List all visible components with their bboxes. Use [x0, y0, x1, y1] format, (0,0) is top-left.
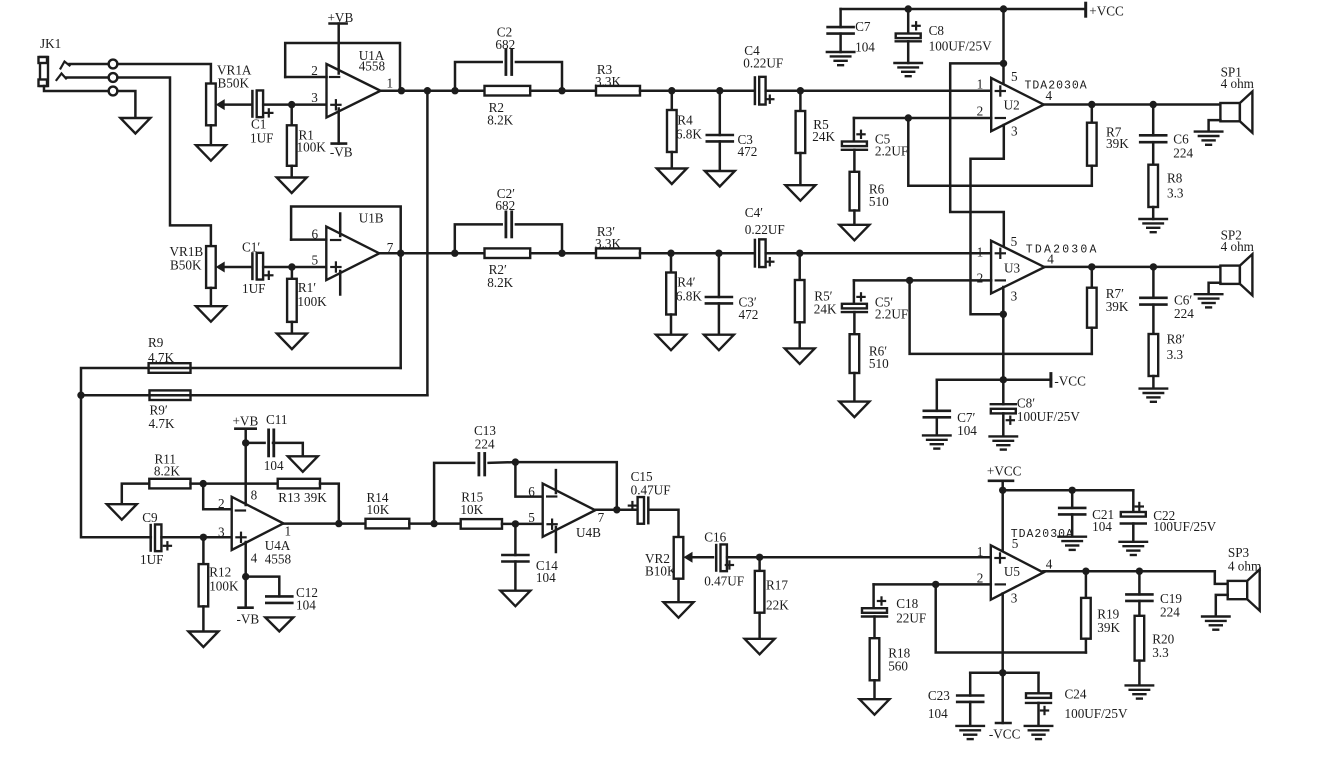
svg-text:0.22UF: 0.22UF — [743, 56, 783, 71]
wire U5 pin5 — [1001, 490, 1004, 556]
C5 polarity — [857, 131, 864, 138]
ground R20 — [1126, 685, 1154, 698]
wire U5 pin3 drop — [1001, 594, 1004, 673]
svg-text:3.3K: 3.3K — [595, 236, 621, 251]
wire C11 branch — [246, 442, 265, 445]
svg-text:1UF: 1UF — [250, 130, 273, 145]
wire C12 branch — [246, 577, 280, 597]
C8p polarity — [1007, 417, 1014, 424]
U1A pin2 wire — [285, 76, 326, 79]
capacitor C2p — [506, 212, 512, 237]
node C11 branch — [242, 439, 249, 446]
ground C12 — [265, 617, 293, 631]
U3 minus sign — [996, 279, 1005, 281]
resistor R3p — [596, 248, 640, 258]
U2 pin3 number — [1011, 123, 1018, 138]
resistor R17 label — [766, 577, 789, 612]
capacitor C8 — [896, 34, 921, 42]
svg-text:3.3: 3.3 — [1167, 347, 1184, 362]
capacitor C4p — [755, 239, 766, 267]
U1A pin2 number — [311, 63, 318, 78]
wire U4A output — [283, 522, 365, 525]
wire -VCC rail — [937, 379, 1051, 382]
wire U4B output — [595, 509, 638, 512]
svg-text:2: 2 — [218, 496, 225, 511]
wire C8 drop — [907, 9, 910, 34]
U3 pin3 number — [1011, 289, 1018, 304]
svg-text:C18: C18 — [896, 596, 918, 611]
wire C1 to U1A pin3 — [263, 103, 326, 106]
wire R11 left to ground — [122, 484, 150, 505]
wire R2 to R3 — [530, 89, 596, 92]
wire pin5 drop U2 — [1002, 9, 1005, 88]
svg-text:0.22UF: 0.22UF — [745, 222, 785, 237]
node U2 pin5 rail — [1000, 5, 1007, 12]
svg-text:100UF/25V: 100UF/25V — [1017, 409, 1080, 424]
wire U1A pin4 to -VB — [337, 109, 340, 144]
wire C23 to ground — [969, 702, 972, 726]
resistor R9 label — [148, 335, 174, 365]
ground VR1B — [196, 306, 226, 322]
svg-text:R12: R12 — [209, 565, 231, 580]
capacitor C18 — [862, 608, 887, 616]
svg-text:4: 4 — [1046, 556, 1053, 571]
svg-text:B50K: B50K — [218, 76, 250, 91]
node R1 junction — [288, 101, 295, 108]
wire C9 to U4A pin3 — [162, 536, 232, 539]
wire C23 drop — [969, 673, 972, 696]
C1 polarity — [265, 109, 272, 116]
svg-text:C24: C24 — [1065, 687, 1087, 702]
svg-text:3.3K: 3.3K — [595, 74, 621, 89]
capacitor C23 — [957, 696, 983, 702]
svg-text:4558: 4558 — [359, 59, 386, 74]
svg-text:1UF: 1UF — [242, 281, 265, 296]
U4B pin7 number — [598, 510, 605, 525]
svg-text:R4: R4 — [677, 112, 693, 127]
U4B power stub top — [555, 470, 558, 493]
U4A pin4 number — [251, 551, 258, 566]
svg-text:1UF: 1UF — [140, 552, 163, 567]
wire C8 to ground — [907, 41, 910, 63]
svg-text:5: 5 — [1011, 69, 1018, 84]
capacitor C1p — [252, 253, 263, 280]
resistor R3 — [596, 86, 640, 96]
resistor R15 label — [460, 490, 483, 517]
power -VCC U3 — [1051, 374, 1086, 389]
U1B pin6 number — [312, 226, 319, 241]
U2 label — [1004, 97, 1020, 112]
capacitor C7p — [924, 411, 950, 418]
capacitor C6 — [1140, 105, 1166, 143]
svg-text:2: 2 — [977, 271, 984, 286]
wire R9 line — [81, 368, 401, 395]
resistor R5 — [796, 91, 806, 186]
node R4p junction — [667, 250, 674, 257]
node C8p top — [1000, 376, 1007, 383]
resistor R18 — [870, 617, 880, 700]
node R19 top — [1082, 568, 1089, 575]
svg-text:4.7K: 4.7K — [149, 416, 175, 431]
resistor R12 — [199, 537, 209, 631]
power -VB U1A — [330, 144, 353, 160]
resistor R9p — [150, 390, 191, 400]
potentiometer VR2 — [674, 537, 684, 579]
resistor R1 label — [297, 128, 327, 155]
svg-text:3: 3 — [218, 525, 225, 540]
resistor R11 label — [154, 452, 180, 479]
capacitor C16 label — [704, 529, 744, 588]
wire VR1A to ground — [210, 125, 213, 145]
resistor R7p — [1087, 267, 1097, 354]
svg-text:3: 3 — [1011, 123, 1018, 138]
capacitor C24 — [1026, 693, 1051, 703]
svg-text:39K: 39K — [1097, 620, 1120, 635]
wire C4 to U2 pin1 — [766, 89, 992, 92]
wire C7p to ground — [936, 417, 939, 435]
wire U3 pin2 — [854, 279, 991, 282]
U4B pin5 number — [528, 510, 535, 525]
U1B pin6 wire — [291, 238, 326, 241]
wire C2p branch right — [516, 224, 562, 253]
svg-text:U4B: U4B — [576, 525, 601, 540]
U4B plus sign — [548, 520, 557, 529]
speaker SP3 — [1228, 569, 1260, 610]
power +VCC — [1086, 3, 1124, 18]
ground C11 — [288, 456, 318, 472]
svg-text:5: 5 — [528, 510, 535, 525]
svg-text:C16: C16 — [704, 529, 726, 544]
wire SP3 ground tap — [1216, 595, 1228, 616]
capacitor C15 — [638, 497, 649, 524]
svg-text:3.3: 3.3 — [1152, 645, 1169, 660]
U3 pin5 number — [1011, 234, 1018, 249]
node R1p junction — [288, 263, 295, 270]
node U1A out to mixer — [424, 87, 431, 94]
node R5p junction — [796, 250, 803, 257]
U2 pin1 number — [977, 76, 984, 91]
U1B feedback box wire — [291, 207, 401, 254]
wire pin3 to -VCC — [1001, 673, 1004, 723]
U1B label — [359, 211, 384, 226]
svg-text:JK1: JK1 — [40, 36, 61, 51]
ground R6p — [839, 402, 869, 418]
svg-text:510: 510 — [869, 194, 889, 209]
svg-text:100K: 100K — [297, 139, 327, 154]
wire C16 to U5 pin1 — [727, 556, 991, 559]
capacitor C4 label — [743, 43, 783, 71]
resistor R4p — [666, 253, 676, 335]
node C14 branch — [512, 520, 519, 527]
op-amp U3 — [991, 241, 1044, 294]
svg-text:104: 104 — [957, 423, 977, 438]
U3 type label — [1026, 244, 1099, 257]
connector JK1 label — [40, 36, 61, 51]
capacitor C19 label — [1160, 591, 1182, 620]
node C21 branch — [1069, 487, 1076, 494]
resistor R2 label — [487, 100, 513, 127]
svg-text:10K: 10K — [460, 502, 483, 517]
capacitor C3p — [706, 253, 732, 335]
resistor R7p label — [1106, 286, 1129, 314]
ground R1p — [277, 334, 307, 350]
ground R11 — [107, 504, 137, 520]
resistor R20 label — [1152, 632, 1174, 661]
capacitor C7 — [828, 27, 854, 33]
svg-text:8.2K: 8.2K — [487, 275, 513, 290]
op-amp U1B — [326, 227, 379, 281]
capacitor C6p — [1140, 267, 1166, 305]
svg-text:6: 6 — [528, 484, 535, 499]
VR1B wiper arrow — [216, 262, 253, 273]
svg-text:C7: C7 — [855, 19, 871, 34]
svg-text:1: 1 — [285, 523, 292, 538]
wire jack sleeve to contact — [44, 86, 109, 91]
svg-text:-VB: -VB — [330, 145, 353, 160]
svg-text:7: 7 — [598, 510, 605, 525]
resistor R1p — [287, 267, 297, 334]
svg-text:510: 510 — [869, 356, 889, 371]
ground R5p — [785, 348, 815, 364]
U1B pin7 number — [387, 240, 394, 255]
U3 plus sign — [996, 249, 1005, 258]
svg-text:TDA2030A: TDA2030A — [1011, 528, 1074, 541]
wire SP3 feed — [1215, 571, 1228, 584]
svg-text:104: 104 — [264, 458, 284, 473]
wire +VCC rail — [841, 8, 1086, 11]
resistor R6 label — [869, 181, 889, 209]
wire U5 output — [1043, 570, 1214, 573]
U4A labels — [265, 538, 292, 567]
capacitor C6p label — [1174, 293, 1194, 322]
wire C11 to ground — [273, 443, 303, 456]
ground R6 — [839, 225, 869, 241]
node U5 pin3 bus — [999, 669, 1006, 676]
potentiometer VR1A label — [217, 63, 252, 91]
wire sleeve contact to ground — [117, 91, 135, 118]
wire +VCC rail U5 — [1003, 489, 1134, 492]
svg-text:682: 682 — [495, 37, 515, 52]
svg-text:2.2UF: 2.2UF — [875, 307, 908, 322]
node C2 rejoin — [558, 87, 565, 94]
node R7 top — [1088, 101, 1095, 108]
svg-text:1: 1 — [977, 544, 984, 559]
ground C21 — [1058, 537, 1086, 550]
resistor R13 — [278, 479, 320, 489]
svg-text:R9: R9 — [148, 335, 164, 350]
resistor R6p — [850, 312, 860, 402]
U5 plus sign — [995, 553, 1004, 562]
svg-text:5: 5 — [1012, 536, 1019, 551]
resistor R5p label — [814, 288, 837, 316]
potentiometer VR1B label — [170, 244, 204, 273]
wire mixer down to C9 — [81, 395, 151, 537]
U4A pin1 number — [285, 523, 292, 538]
resistor R4p label — [676, 275, 702, 304]
ground R18 — [860, 699, 890, 715]
wire U2 pin2 — [854, 117, 991, 120]
U5 pin5 number — [1012, 536, 1019, 551]
ground VR1A — [196, 145, 226, 161]
resistor R19 — [1081, 571, 1091, 652]
svg-text:8: 8 — [251, 487, 258, 502]
op-amp U5 — [991, 545, 1044, 599]
JK1 ring switch lever — [57, 74, 67, 81]
node C19 top — [1136, 568, 1143, 575]
wire U1A output — [381, 89, 485, 92]
wire C21 to ground — [1071, 514, 1074, 536]
wire U2 output — [1044, 103, 1221, 106]
resistor R1 — [287, 105, 297, 178]
U4A plus sign — [236, 533, 245, 542]
U2 minus sign — [996, 117, 1005, 119]
capacitor C24 label — [1065, 687, 1128, 721]
capacitor C3 — [707, 91, 733, 171]
wire C22 to ground — [1132, 524, 1135, 542]
svg-text:22UF: 22UF — [896, 611, 926, 626]
node C8 branch — [905, 5, 912, 12]
wire U3 output — [1045, 266, 1221, 269]
wire C14 to ground — [514, 562, 517, 591]
capacitor C8p — [991, 380, 1016, 414]
U1B power stub bottom — [339, 271, 342, 295]
wire C15 to VR2 — [649, 510, 679, 537]
node C3 junction — [716, 87, 723, 94]
ground C8 — [894, 63, 922, 76]
svg-text:5: 5 — [312, 252, 319, 267]
JK1 tip switch lever — [61, 62, 70, 69]
wire SP1 ground tap — [1209, 120, 1221, 131]
power +VB U1A — [328, 10, 354, 25]
svg-text:8.2K: 8.2K — [487, 112, 513, 127]
svg-text:+VCC: +VCC — [987, 464, 1022, 479]
wire U4A pin4 to -VB — [244, 542, 247, 608]
svg-text:224: 224 — [1173, 145, 1193, 160]
node R12 junction — [200, 534, 207, 541]
capacitor C23 label — [928, 688, 950, 721]
resistor R7 — [1087, 105, 1097, 186]
potentiometer VR1B — [206, 246, 216, 288]
U1B minus sign — [331, 239, 340, 241]
C4 polarity — [766, 96, 773, 103]
resistor R3 label — [595, 62, 621, 89]
resistor R5p — [795, 253, 805, 348]
wire R14 to R15 — [409, 522, 460, 525]
capacitor C2p label — [495, 186, 515, 213]
resistor R4 label — [676, 112, 702, 141]
resistor R13 label — [278, 490, 327, 505]
capacitor C2 — [506, 50, 512, 75]
capacitor C14 — [502, 555, 528, 562]
wire +VB to U4A pin8 — [244, 429, 247, 505]
svg-text:4 ohm: 4 ohm — [1221, 76, 1255, 91]
ground C3p — [704, 335, 734, 351]
ground C7p — [923, 435, 951, 448]
wire R2p to R3p — [530, 252, 596, 255]
wire C13 branch — [434, 463, 474, 524]
resistor R2 — [485, 86, 531, 96]
ground C7 — [827, 52, 855, 65]
svg-text:-VB: -VB — [237, 612, 260, 627]
ground C23 — [956, 726, 984, 739]
svg-text:U2: U2 — [1004, 97, 1020, 112]
C8 polarity — [913, 22, 920, 29]
ground SP3 — [1202, 617, 1230, 630]
svg-text:TDA2030A: TDA2030A — [1025, 79, 1088, 92]
capacitor C12 — [266, 596, 292, 603]
capacitor C5 label — [875, 131, 908, 158]
JK1 sleeve contact — [109, 87, 118, 96]
wire C7 drop — [839, 9, 842, 27]
node U4A pin2 — [200, 480, 207, 487]
resistor R5 label — [812, 117, 835, 144]
svg-text:1: 1 — [977, 76, 984, 91]
svg-text:3: 3 — [1011, 590, 1018, 605]
capacitor C22 — [1121, 512, 1146, 524]
svg-text:104: 104 — [1092, 519, 1112, 534]
wire R13 to output — [320, 484, 339, 524]
wire R9p line — [81, 394, 427, 397]
U1A plus sign — [331, 100, 340, 109]
op-amp U4B — [543, 484, 596, 537]
wire U3 pin3 drop — [1002, 287, 1005, 380]
capacitor C13 — [479, 453, 485, 475]
capacitor C16 — [716, 544, 727, 571]
potentiometer VR2 label — [645, 551, 677, 579]
svg-text:4: 4 — [1046, 88, 1053, 103]
svg-text:C4′: C4′ — [745, 205, 763, 220]
U5 pin2 number — [977, 571, 984, 586]
speaker SP2 label — [1221, 227, 1255, 254]
wire pin2 dogleg — [203, 484, 232, 510]
capacitor C19 — [1126, 571, 1152, 601]
resistor R7 label — [1106, 125, 1129, 152]
svg-text:C9: C9 — [142, 510, 158, 525]
svg-text:R8: R8 — [1167, 171, 1183, 186]
svg-text:39K: 39K — [1106, 136, 1129, 151]
node R7p top — [1088, 263, 1095, 270]
capacitor C12 label — [296, 585, 318, 613]
node C2p rejoin — [558, 250, 565, 257]
svg-text:+VCC: +VCC — [1089, 4, 1124, 19]
svg-text:104: 104 — [536, 570, 556, 585]
capacitor C5p — [842, 304, 867, 312]
wire jack ring to contact — [66, 76, 109, 79]
C1p polarity — [265, 272, 272, 279]
svg-text:C8: C8 — [929, 23, 945, 38]
node U4B pin6 — [512, 458, 519, 465]
ground SP2 — [1195, 294, 1223, 307]
svg-text:39K: 39K — [1106, 299, 1129, 314]
svg-text:4558: 4558 — [265, 552, 292, 567]
wire U1B out down to R9 — [399, 253, 402, 368]
svg-text:472: 472 — [738, 144, 758, 159]
wire C14 down — [514, 524, 517, 555]
ground R8 — [1139, 219, 1167, 232]
C22 polarity — [1136, 503, 1143, 510]
svg-text:4: 4 — [1047, 252, 1054, 267]
resistor R2p label — [487, 262, 513, 290]
capacitor C3 label — [738, 132, 758, 159]
U4B power stub bottom — [555, 527, 558, 552]
wire VR2 to ground — [677, 579, 680, 603]
svg-text:560: 560 — [888, 659, 908, 674]
svg-text:3: 3 — [1011, 289, 1018, 304]
wire U2 pin2 dogleg to R7 — [908, 118, 1092, 186]
svg-text:U5: U5 — [1004, 564, 1021, 579]
C16 polarity — [726, 561, 733, 568]
svg-text:0.47UF: 0.47UF — [704, 573, 744, 588]
